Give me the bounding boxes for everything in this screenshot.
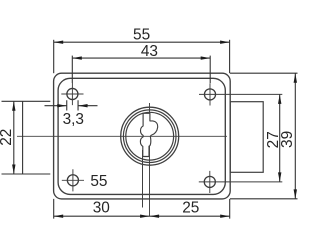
dim 30/25: line [54,215,230,217]
arrow 22 top [12,101,15,111]
dim 55 top: line [54,41,230,43]
dim 43: extension left [71,56,73,83]
keyway profile [140,113,157,156]
arrow 55 right [220,41,230,44]
arrow 30 right [140,215,150,218]
dim 22: line [13,101,15,174]
dim 22: extension top [2,100,51,102]
cylinder vertical centerline / extension to bottom dims [149,103,151,216]
dim 43: line [72,57,210,59]
dim 39: extension bottom [230,198,298,200]
crosshair BL [62,169,84,191]
dim 39: extension top [230,72,298,74]
svg-text:43: 43 [141,43,158,60]
dim 43: extension right [209,56,211,84]
mounting hole TR [204,89,215,100]
dim 39: line [294,73,296,199]
svg-text:3,3: 3,3 [63,111,84,128]
svg-text:55: 55 [90,173,107,190]
arrow 30 left [54,215,64,218]
arrow 39 top [294,73,297,83]
mounting hole TL [67,88,78,99]
cylinder horizontal centerline [17,135,227,137]
mounting hole BR [204,176,215,187]
keyway groove line left [142,150,144,208]
arrow 43 right [201,56,211,59]
dim 55 top: extension right [229,40,231,73]
cylinder outer circle [121,107,179,165]
svg-text:55: 55 [133,26,150,43]
arrow 43 left [72,56,82,59]
arrow 25 right [220,215,230,218]
lock cover [58,78,225,194]
side flange [230,102,263,173]
crosshair BR / extension for 27 [199,171,282,193]
dim 22: extension bottom [2,173,51,175]
svg-text:25: 25 [182,199,199,216]
mounting hole BL [67,175,78,186]
arrow 3,3 right [78,104,88,107]
crosshair TL [61,83,83,105]
arrow 27 bottom [278,172,281,182]
arrow 22 bottom [12,165,15,175]
left bracket line [22,101,24,174]
svg-text:22: 22 [0,129,15,146]
dim 30/25: extensions [54,199,230,219]
dim 3,3: extension lines [67,100,78,110]
arrow 3,3 left [57,104,67,107]
arrow 55 left [54,41,64,44]
crosshair TR / extension for 27 [199,83,282,105]
svg-text:39: 39 [279,131,296,148]
cylinder ring 2 [123,110,176,163]
arrow 25 left [150,215,160,218]
arrow 39 bottom [294,189,297,199]
dim 3,3: leaders [45,105,98,107]
arrow 27 top [278,94,281,104]
cylinder ring 3 [126,112,174,160]
dim 55 top: extension left [53,40,55,73]
lock base plate [54,73,231,199]
svg-text:30: 30 [93,199,110,216]
dim 27: line [279,94,281,181]
